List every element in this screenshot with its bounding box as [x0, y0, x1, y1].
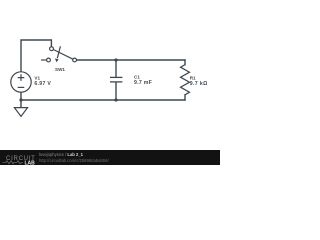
- SW1 blade: [53, 50, 73, 60]
- svg-text:SW1: SW1: [55, 67, 65, 72]
- svg-text:lovejophysics / Lab 2_1: lovejophysics / Lab 2_1: [39, 152, 84, 157]
- svg-text:LAB: LAB: [25, 160, 36, 165]
- wire: bottom rail: [21, 99, 185, 101]
- V1 body circle: [11, 72, 31, 92]
- SW1 left terminal circle: [47, 58, 51, 62]
- SW1 right terminal circle: [73, 58, 77, 62]
- SW1 actuator arrowhead: [55, 58, 59, 62]
- voltage source V1: [11, 72, 31, 92]
- V1 plus sign: [18, 74, 25, 81]
- C1 top plate: [110, 76, 122, 78]
- svg-text:http://circuitlab.com/c/25698d: http://circuitlab.com/c/25698da5ab59/: [39, 158, 109, 163]
- C1 bottom plate: [110, 81, 122, 83]
- node: junction dot C1 top: [114, 58, 117, 61]
- SW1 actuator arrow shaft: [57, 46, 60, 58]
- footer bar: [0, 150, 220, 165]
- wire: V1 bottom to bottom rail: [20, 92, 22, 100]
- wire: capacitor top lead: [115, 60, 117, 77]
- svg-text:6.97 V: 6.97 V: [34, 81, 51, 87]
- node: junction dot C1 bottom: [114, 98, 117, 101]
- wire: resistor bottom to bottom rail: [184, 95, 186, 100]
- svg-text:V1: V1: [34, 76, 40, 81]
- svg-text:9.7 kΩ: 9.7 kΩ: [190, 81, 208, 87]
- capacitor C1: [110, 77, 122, 82]
- switch SW1: [41, 46, 77, 62]
- wire: switch right terminal to top-right corner: [77, 59, 186, 61]
- wire: right vertical into resistor: [184, 60, 186, 65]
- wire: ground stem: [20, 100, 22, 108]
- SW1 pivot terminal circle: [50, 47, 54, 51]
- V1 minus sign: [18, 86, 25, 88]
- svg-text:9.7 mF: 9.7 mF: [134, 80, 152, 86]
- resistor R1: [181, 65, 190, 95]
- wire: capacitor bottom lead: [115, 82, 117, 100]
- wire: V1 top up and over to switch: [21, 40, 51, 72]
- node: junction dot V1/ground on bottom rail: [19, 98, 22, 101]
- svg-text:R1: R1: [190, 76, 196, 81]
- ground: [14, 108, 27, 117]
- SW1 left stub: [41, 59, 47, 61]
- svg-text:C1: C1: [134, 74, 140, 79]
- CircuitLab logo: zigzag: [3, 161, 24, 164]
